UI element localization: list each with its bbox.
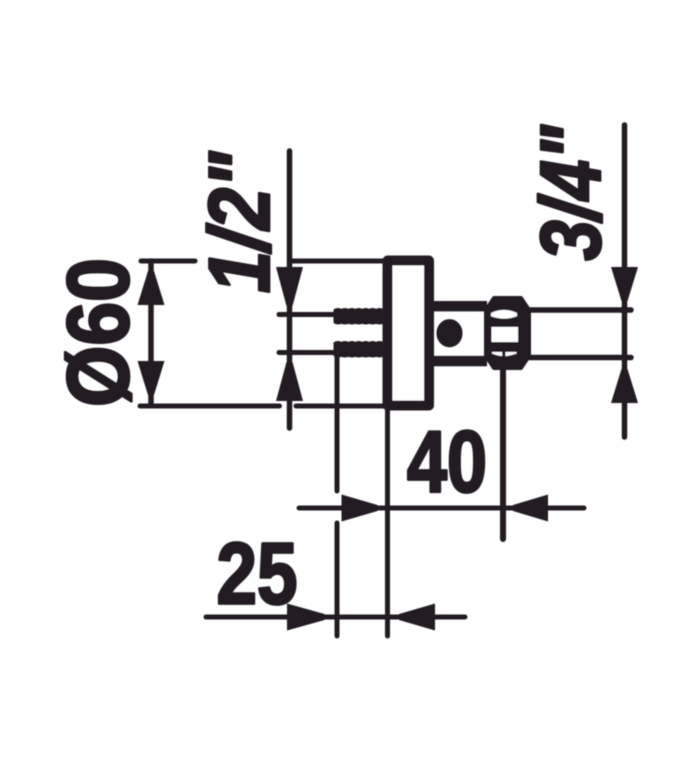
svg-text:40: 40 — [407, 414, 487, 511]
svg-text:25: 25 — [217, 526, 298, 623]
svg-text:Ø60: Ø60 — [50, 258, 147, 407]
svg-text:3/4": 3/4" — [524, 124, 619, 260]
svg-text:1/2": 1/2" — [192, 151, 288, 293]
